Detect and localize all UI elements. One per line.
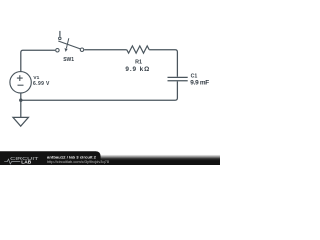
watermark box [0,151,101,165]
resistor R1 [127,46,150,53]
svg-text:R1: R1 [135,60,142,66]
wire [21,81,178,100]
node junction [19,99,22,102]
wire [149,50,177,77]
logo waveform [4,159,20,164]
wire [20,100,22,117]
svg-text:9.9 kΩ: 9.9 kΩ [125,66,149,73]
ground [13,117,28,126]
svg-text:6.99 V: 6.99 V [33,81,50,87]
svg-text:SW1: SW1 [63,57,74,63]
svg-text:LAB: LAB [21,160,32,165]
svg-text:http://circuitlab.com/c/3y9hcj: http://circuitlab.com/c/3y9hcjdv3q78 [47,160,109,164]
svg-text:9.9 mF: 9.9 mF [190,79,209,86]
wire [21,50,55,71]
svg-text:antbau12 / lab 3 circuit 2: antbau12 / lab 3 circuit 2 [47,156,96,160]
capacitor C1 [168,77,188,80]
switch SW1 [56,31,84,52]
voltage source V1 [10,72,31,93]
wire [20,93,22,100]
wire [84,49,127,51]
svg-text:V1: V1 [33,75,39,81]
